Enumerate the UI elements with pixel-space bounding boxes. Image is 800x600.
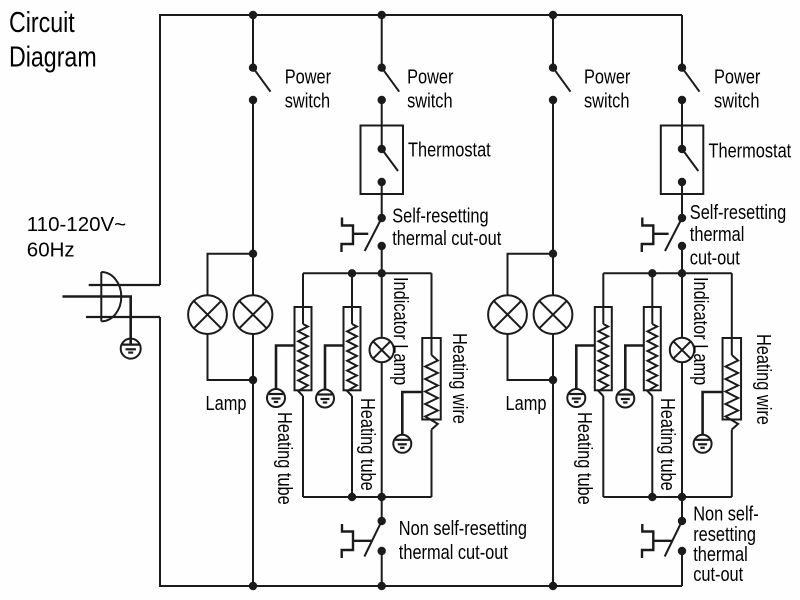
- heating tube R2: [344, 307, 361, 390]
- lamp L1: [188, 295, 227, 334]
- svg-text:Power: Power: [584, 65, 630, 88]
- wire col2 cluster to non-self cutout: [381, 497, 383, 521]
- wire heating-wire entry b: [731, 273, 733, 355]
- wire left rail upper: [159, 14, 161, 285]
- ground G tube1 b: [567, 389, 585, 407]
- wire tube1 entry b: [602, 273, 604, 324]
- node top bus x253: [249, 11, 257, 19]
- wire tube2 entry b: [651, 273, 653, 324]
- switch S2 power switch: [378, 63, 386, 71]
- ground G tube1 a: [267, 389, 285, 407]
- svg-text:Diagram: Diagram: [9, 40, 97, 73]
- svg-text:Circuit: Circuit: [9, 5, 75, 38]
- node bottom bus x253: [249, 582, 257, 590]
- ground G1 plug earth symbol: [121, 339, 141, 359]
- wire heater cluster top line a: [303, 272, 432, 274]
- wire heater cluster top line b: [603, 272, 732, 274]
- node cluster bottom tube2 b: [648, 493, 656, 501]
- plug live prong wire: [89, 284, 160, 286]
- cutout F2 self-resetting thermal cut-out: [678, 214, 686, 222]
- wire indicator entry a: [381, 273, 383, 338]
- svg-text:cut-out: cut-out: [693, 563, 743, 586]
- wire col4 cutout to heater cluster: [681, 246, 683, 273]
- wire bottom bus: [160, 585, 682, 587]
- thermostat TH1: [361, 126, 404, 195]
- wire col1 switch to lamp junction: [252, 100, 254, 254]
- wire heating-wire to bottom a: [431, 430, 433, 498]
- svg-text:Non self-resetting: Non self-resetting: [399, 517, 527, 540]
- svg-text:switch: switch: [285, 89, 330, 112]
- wire tube2 entry a: [351, 273, 353, 324]
- wire col4 switch to thermostat: [681, 100, 683, 149]
- svg-text:Heating wire: Heating wire: [449, 333, 472, 424]
- svg-text:Indicator Lamp: Indicator Lamp: [690, 277, 713, 385]
- switch S3 power switch: [549, 63, 557, 71]
- wire col4 thermostat to cutout: [681, 182, 683, 218]
- svg-text:Heating tube: Heating tube: [574, 412, 597, 505]
- svg-text:Power: Power: [407, 65, 453, 88]
- wire ground stem heating-wire a: [402, 392, 422, 435]
- wire col2 thermostat to cutout: [381, 182, 383, 218]
- indicator lamp IL1: [370, 338, 394, 362]
- wire heater cluster bottom line a: [303, 496, 432, 498]
- switch S1 power switch: [249, 63, 257, 71]
- lamp L4: [534, 295, 573, 334]
- heating tube R1: [295, 307, 312, 390]
- wire indicator entry b: [681, 273, 683, 338]
- heating wire element HW1: [422, 338, 441, 420]
- node cluster top tube2 b: [648, 269, 656, 277]
- wire tube1 to bottom b: [602, 396, 604, 497]
- wire rail col4 top segment: [681, 15, 683, 68]
- svg-text:Self-resetting: Self-resetting: [392, 204, 488, 227]
- cutout F4 non-self-resetting thermal cut-out: [678, 517, 686, 525]
- thermostat TH2: [661, 126, 704, 195]
- svg-text:Lamp: Lamp: [506, 392, 547, 415]
- node cluster bottom rail b: [678, 493, 686, 501]
- wire ground stem heating-wire b: [703, 392, 723, 435]
- wire indicator to bottom a: [381, 362, 383, 497]
- svg-text:thermal cut-out: thermal cut-out: [392, 227, 501, 250]
- node lamp junction bottom col1: [249, 376, 257, 384]
- svg-text:110-120V~: 110-120V~: [27, 213, 126, 236]
- node cluster top rail b: [678, 269, 686, 277]
- heating tube R4: [644, 307, 661, 390]
- plug neutral prong wire: [86, 316, 160, 318]
- wire col4 cluster to non-self cutout: [681, 497, 683, 521]
- wire rail col1 top segment: [252, 15, 254, 68]
- svg-text:Self-resetting: Self-resetting: [690, 200, 786, 223]
- wire indicator to bottom b: [681, 362, 683, 497]
- wire col3 switch to lamp junction: [552, 100, 554, 254]
- ground G tube2 a: [316, 390, 334, 408]
- node cluster top rail a: [378, 269, 386, 277]
- switch S4 power switch: [678, 63, 686, 71]
- svg-text:Thermostat: Thermostat: [408, 138, 491, 161]
- heating wire element HW2: [723, 338, 742, 420]
- svg-text:60Hz: 60Hz: [27, 238, 75, 261]
- svg-text:switch: switch: [714, 89, 759, 112]
- wire lamp rail col1: [252, 254, 254, 380]
- wire col4 non-self cutout to bottom bus: [681, 551, 683, 586]
- node bottom bus x553: [549, 582, 557, 590]
- node lamp junction top col1: [249, 250, 257, 258]
- wire ground stem tube2 b: [625, 346, 644, 390]
- wire col3 lamp to bottom bus: [552, 380, 554, 586]
- ground G heating-wire a: [393, 435, 411, 453]
- wire left rail lower: [159, 317, 161, 587]
- wire col2 switch to thermostat: [381, 100, 383, 149]
- svg-text:Heating tube: Heating tube: [657, 398, 680, 491]
- cutout F1 self-resetting thermal cut-out: [378, 214, 386, 222]
- lamp L3: [488, 295, 527, 334]
- svg-text:Power: Power: [285, 65, 331, 88]
- wire col2 cutout to heater cluster: [381, 246, 383, 273]
- svg-text:thermal: thermal: [690, 222, 745, 245]
- node lamp junction top col3: [549, 250, 557, 258]
- svg-text:Heating wire: Heating wire: [753, 334, 776, 425]
- svg-text:switch: switch: [407, 89, 452, 112]
- svg-text:Heating tube: Heating tube: [274, 412, 297, 505]
- wire tube2 to bottom b: [651, 396, 653, 497]
- wire col2 non-self cutout to bottom bus: [381, 551, 383, 586]
- heating tube R3: [595, 307, 612, 390]
- wire tube2 to bottom a: [351, 396, 353, 497]
- svg-text:thermal cut-out: thermal cut-out: [399, 540, 508, 563]
- svg-text:Lamp: Lamp: [206, 392, 247, 415]
- wire ground stem tube2 a: [325, 346, 344, 390]
- cutout F3 non-self-resetting thermal cut-out: [378, 517, 386, 525]
- wire lamp branch left col3: [508, 254, 554, 380]
- svg-text:cut-out: cut-out: [690, 246, 740, 269]
- svg-text:Indicator Lamp: Indicator Lamp: [390, 277, 413, 385]
- node cluster top tube2 a: [348, 269, 356, 277]
- wire tube1 to bottom a: [302, 396, 304, 497]
- svg-text:Non self-: Non self-: [693, 502, 758, 525]
- plug earth prong wire: [63, 297, 131, 339]
- svg-text:Heating tube: Heating tube: [357, 398, 380, 491]
- wire heating-wire entry a: [431, 273, 433, 355]
- node top bus x381: [378, 11, 386, 19]
- wire rail col3 top segment: [552, 15, 554, 68]
- svg-text:Power: Power: [714, 65, 760, 88]
- node lamp junction bottom col3: [549, 376, 557, 384]
- lamp L2: [234, 295, 273, 334]
- wire ground stem tube1 b: [576, 346, 595, 390]
- node top bus x553: [549, 11, 557, 19]
- plug body P1: [101, 272, 121, 321]
- node bottom bus x381: [378, 582, 386, 590]
- indicator lamp IL2: [670, 338, 694, 362]
- svg-text:switch: switch: [584, 89, 629, 112]
- wire heating-wire to bottom b: [731, 430, 733, 498]
- ground G heating-wire b: [694, 435, 712, 453]
- wire col1 lamp to bottom bus: [252, 380, 254, 586]
- wire heater cluster bottom line b: [603, 496, 732, 498]
- wire top bus: [160, 14, 682, 16]
- node cluster bottom rail a: [378, 493, 386, 501]
- wire tube1 entry a: [302, 273, 304, 324]
- node cluster bottom tube2 a: [348, 493, 356, 501]
- wire lamp rail col3: [552, 254, 554, 380]
- ground G tube2 b: [616, 390, 634, 408]
- svg-text:Thermostat: Thermostat: [709, 139, 792, 162]
- wire ground stem tube1 a: [276, 346, 295, 390]
- wire rail col2 top segment: [381, 15, 383, 68]
- wire lamp branch left col1: [208, 254, 254, 380]
